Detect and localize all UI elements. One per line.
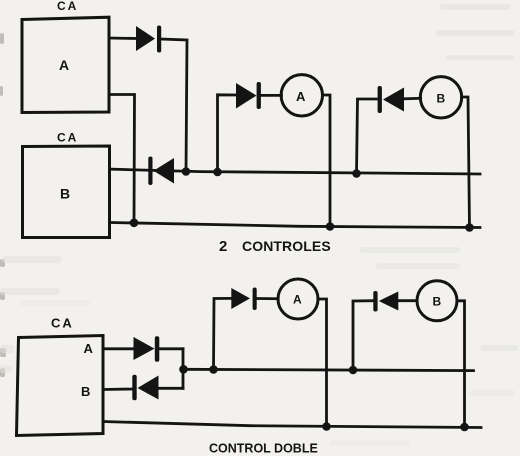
svg-text:B: B xyxy=(433,295,442,309)
wire box A bottom output down to neutral bus xyxy=(109,95,135,223)
junction dot node 3 xyxy=(179,365,188,374)
junction dot lamp B / neutral xyxy=(465,223,474,232)
wire lamp A to neutral bus (bottom) xyxy=(318,299,327,427)
junction dot node 2 xyxy=(213,168,222,177)
wire D5 to node 3 xyxy=(159,347,183,350)
phase bus wire (bottom circuit) xyxy=(184,369,474,370)
AC source box (bottom) xyxy=(17,336,104,436)
wire lamp B branch riser (bottom) xyxy=(353,301,374,370)
wire output B to diode D6 xyxy=(103,388,133,391)
lamp A circle xyxy=(281,75,322,116)
svg-text:CA: CA xyxy=(51,316,74,331)
diode D2 (points left, on phase bus) xyxy=(148,157,174,186)
svg-text:A: A xyxy=(84,341,94,356)
svg-text:B: B xyxy=(81,384,90,399)
diode D1 (points right) xyxy=(136,26,161,53)
wire D7 to lamp A xyxy=(257,297,279,300)
svg-text:A: A xyxy=(296,89,306,104)
wire lamp B to neutral bus xyxy=(462,97,470,228)
wire D4 to lamp B xyxy=(404,97,421,100)
junction dot lamp A / neutral (bottom) xyxy=(322,422,331,431)
diode D6 (points left) xyxy=(132,375,158,401)
wire D6 to node 3 xyxy=(159,387,184,390)
junction dot lamp B / neutral (bottom) xyxy=(460,423,469,432)
svg-text:B: B xyxy=(60,186,70,202)
wire lamp A to neutral bus xyxy=(323,95,331,227)
junction dot node 1 xyxy=(182,167,191,176)
svg-text:2: 2 xyxy=(219,238,227,255)
lamp B circle xyxy=(420,77,461,118)
wire box A top output to diode D1 xyxy=(109,37,137,40)
wire lamp B branch riser xyxy=(357,99,379,174)
svg-text:A: A xyxy=(293,292,302,306)
neutral bus wire (top circuit) xyxy=(111,223,480,228)
diode D8 (points left) xyxy=(373,291,398,312)
diode D7 (points right) xyxy=(231,288,256,311)
faint page bleed-through (decorative) xyxy=(0,33,6,377)
diode D4 (points left) xyxy=(378,86,404,113)
wire D3 to lamp A xyxy=(261,94,282,97)
diode D3 (points right) xyxy=(236,82,261,109)
svg-text:A: A xyxy=(59,57,69,73)
svg-text:CA: CA xyxy=(57,131,78,145)
neutral bus wire (bottom circuit) xyxy=(103,422,481,428)
svg-text:B: B xyxy=(437,92,446,106)
svg-text:CA: CA xyxy=(57,0,78,13)
junction dot lamp B riser / phase bus xyxy=(352,169,361,178)
junction dot on neutral bus xyxy=(130,219,139,228)
junction dot lamp A / neutral xyxy=(326,222,335,231)
wire lamp A branch riser (bottom) xyxy=(214,298,232,369)
svg-text:CONTROLES: CONTROLES xyxy=(242,238,331,254)
junction dot lamp A riser / phase bus xyxy=(209,365,218,374)
wire node 3 vertical join xyxy=(182,349,185,389)
wire D8 to lamp B xyxy=(398,299,417,302)
svg-text:CONTROL DOBLE: CONTROL DOBLE xyxy=(209,442,318,456)
wire D1 to node 1 xyxy=(161,39,187,172)
diode D5 (points right) xyxy=(134,336,160,362)
wire lamp B to neutral bus (bottom) xyxy=(457,301,465,427)
phase bus wire (top circuit) xyxy=(111,169,480,174)
wire output A to diode D5 xyxy=(103,347,134,350)
junction dot lamp B riser / phase bus (bottom) xyxy=(349,366,358,375)
AC source box B xyxy=(23,146,110,238)
lamp A circle (bottom) xyxy=(278,279,318,319)
wire lamp A branch riser xyxy=(218,95,237,172)
lamp B circle (bottom) xyxy=(417,281,457,321)
AC source box A xyxy=(22,17,109,112)
